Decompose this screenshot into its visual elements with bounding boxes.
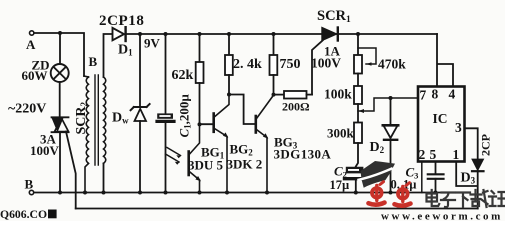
node 750 top — [272, 32, 276, 36]
node 100k 300k junction wire to pin7 — [357, 104, 359, 123]
resistor 100k — [357, 74, 359, 87]
capacitor C2 17u — [356, 143, 358, 167]
svg-text:A: A — [26, 37, 36, 52]
svg-text:8: 8 — [432, 87, 439, 102]
node C1 top — [164, 32, 168, 36]
resistor 300k — [354, 123, 362, 144]
svg-text:Q606.CO: Q606.CO — [0, 208, 47, 221]
svg-text:750: 750 — [280, 57, 301, 72]
top rail — [126, 33, 437, 35]
svg-text:100V: 100V — [311, 56, 341, 71]
wire junction to lamp — [59, 33, 61, 64]
svg-text:7: 7 — [420, 88, 427, 103]
trigger line SCR2 gate to D3 — [76, 208, 478, 210]
svg-text:3DG130A: 3DG130A — [274, 147, 332, 162]
transistor BG2 — [200, 123, 214, 125]
node rail secondary — [102, 191, 106, 195]
node rail BG1 emitter — [198, 191, 202, 195]
light arrows BG1 — [166, 148, 181, 163]
svg-text:Dw: Dw — [112, 111, 129, 126]
svg-text:IC: IC — [433, 111, 448, 126]
diode D1 — [113, 28, 125, 40]
wire pin2 to rail — [421, 162, 423, 193]
svg-text:B: B — [89, 54, 98, 69]
resistor 2.4k — [228, 34, 230, 55]
svg-text:D1: D1 — [118, 43, 133, 58]
svg-text:200Ω: 200Ω — [282, 100, 310, 114]
wire secondary top to D1 — [104, 34, 113, 77]
resistor 470k with wiper — [357, 34, 359, 55]
node BG2 collector junction — [227, 93, 231, 97]
svg-text:4: 4 — [449, 87, 456, 102]
node rail BG2 emitter — [225, 191, 229, 195]
triac SCR2 — [52, 117, 69, 132]
node rail C1 — [164, 191, 168, 195]
resistor 200 ohm — [274, 94, 285, 96]
svg-text:300k: 300k — [327, 126, 355, 141]
node 62k top — [198, 32, 202, 36]
svg-text:60W: 60W — [22, 68, 48, 83]
svg-text:2: 2 — [419, 147, 426, 162]
node lamp branch — [58, 31, 62, 35]
wire D3 to pin1 and trigger line — [456, 162, 478, 209]
node 470k top — [356, 32, 360, 36]
svg-text:BG2: BG2 — [230, 142, 254, 158]
node rail Dw — [138, 191, 142, 195]
node D2 top — [389, 96, 393, 100]
wire 200 to SCR1 gate — [312, 40, 323, 94]
capacitor C1 200u — [165, 34, 167, 113]
node rail primary — [83, 191, 87, 195]
bottom rail — [34, 192, 461, 194]
triac gate wire to trigger line — [66, 132, 76, 209]
node rail BG3 emitter — [265, 191, 269, 195]
node Dw top — [138, 32, 142, 36]
zener Dw — [139, 34, 141, 107]
svg-text:~220V: ~220V — [8, 102, 46, 117]
node 2.4k top — [227, 32, 231, 36]
svg-text:C1,200µ: C1,200µ — [177, 94, 193, 138]
phototransistor BG1 — [187, 152, 190, 176]
svg-text:B: B — [25, 177, 34, 192]
node rail SCR2 — [58, 191, 62, 195]
node 750 BG3 junction — [272, 93, 276, 97]
wire lamp to triac — [59, 82, 61, 117]
svg-text:1: 1 — [453, 147, 460, 162]
wire A to primary top — [34, 33, 84, 76]
svg-text:3DU 5: 3DU 5 — [188, 158, 224, 173]
svg-text:5: 5 — [430, 147, 437, 162]
svg-text:17µ: 17µ — [330, 178, 350, 192]
wire rail to pins 8 4 — [437, 34, 453, 87]
svg-text:3DK 2: 3DK 2 — [227, 157, 263, 172]
node BG1 collector / BG2 base — [198, 122, 202, 126]
node rail D2 — [389, 191, 393, 195]
svg-text:SCR1: SCR1 — [317, 8, 351, 25]
watermark chongchong red bugs — [369, 182, 411, 206]
terminal B — [29, 190, 33, 194]
diode D3 — [472, 159, 483, 170]
node rail C2 — [354, 191, 358, 195]
capacitor C3 0.1u — [435, 162, 437, 175]
svg-text:D2: D2 — [370, 140, 385, 155]
diode D2 — [390, 98, 392, 125]
wire secondary bottom to rail — [103, 163, 105, 192]
lamp ZD 60W — [51, 64, 69, 82]
IC box — [418, 87, 465, 162]
svg-text:2CP18: 2CP18 — [99, 13, 145, 29]
SCR1 — [322, 28, 337, 41]
wire pin3 to D3 — [465, 128, 478, 158]
node rail C3 — [434, 191, 438, 195]
watermark chinese characters dianzi xiazaizhan — [427, 190, 505, 207]
resistor 62k — [199, 34, 201, 62]
watermark graduation cap — [359, 161, 396, 188]
wire triac MT1 to bottom rail — [59, 132, 61, 192]
svg-text:9V: 9V — [144, 36, 161, 51]
svg-text:100V: 100V — [30, 143, 60, 158]
svg-text:3: 3 — [455, 120, 462, 135]
transformer B — [84, 75, 106, 193]
svg-text:100k: 100k — [324, 87, 352, 102]
transistor BG3 — [255, 116, 258, 133]
svg-text:62k: 62k — [172, 68, 194, 83]
resistor 750 — [273, 34, 275, 55]
svg-text:470k: 470k — [378, 57, 406, 72]
wire BG2 collector to BG3 base — [229, 95, 256, 125]
terminal A — [30, 31, 34, 35]
svg-text:www.eeworm.com: www.eeworm.com — [381, 211, 503, 222]
svg-text:2CP: 2CP — [479, 134, 493, 156]
svg-text:D3: D3 — [461, 171, 476, 186]
svg-text:2. 4k: 2. 4k — [233, 57, 262, 72]
